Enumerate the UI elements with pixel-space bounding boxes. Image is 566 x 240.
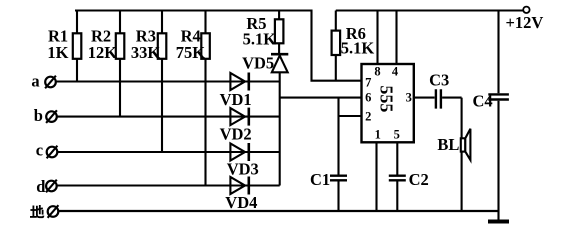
svg-text:a: a xyxy=(31,71,39,90)
svg-text:7: 7 xyxy=(365,76,371,90)
wire left top rail xyxy=(75,9,312,11)
wire pin2/C1 vertical xyxy=(337,98,339,175)
svg-text:C4: C4 xyxy=(473,92,493,111)
diode VD2 xyxy=(230,108,245,125)
wire input c line xyxy=(58,151,280,153)
svg-text:33K: 33K xyxy=(131,43,161,62)
ground symbol xyxy=(488,220,509,224)
svg-text:+12V: +12V xyxy=(506,13,544,32)
svg-text:VD3: VD3 xyxy=(227,159,259,178)
resistor R4 xyxy=(204,11,206,186)
wire pin3 xyxy=(414,97,435,99)
wire ground rail xyxy=(59,210,499,212)
wire input b line xyxy=(58,116,280,118)
zener diode VD5 xyxy=(271,53,288,56)
node terminal c xyxy=(47,147,58,158)
diode VD1 xyxy=(230,73,245,90)
resistor R2 xyxy=(119,11,121,118)
svg-text:75K: 75K xyxy=(176,43,206,62)
svg-text:VD5: VD5 xyxy=(242,53,274,72)
wire pin5 to C2 xyxy=(396,142,398,174)
wire pin1 to ground xyxy=(375,142,377,211)
resistor R3 xyxy=(161,11,163,153)
op-amp U1 555 box xyxy=(362,64,414,142)
svg-text:8: 8 xyxy=(374,65,380,79)
wire pin8 xyxy=(376,11,378,65)
wire pin4 xyxy=(395,11,397,65)
capacitor C4 xyxy=(497,11,499,94)
svg-text:1K: 1K xyxy=(47,43,68,62)
svg-text:4: 4 xyxy=(392,65,399,79)
wire pin2 stub xyxy=(339,115,362,117)
svg-text:C1: C1 xyxy=(310,170,330,189)
resistor R6 xyxy=(335,11,337,81)
wire speaker drop xyxy=(461,98,463,211)
svg-text:1: 1 xyxy=(375,127,381,141)
svg-text:2: 2 xyxy=(365,110,371,124)
svg-text:C3: C3 xyxy=(429,71,449,90)
svg-text:VD1: VD1 xyxy=(220,90,252,109)
node terminal d xyxy=(46,181,57,192)
wire input a line xyxy=(57,80,280,82)
svg-text:BL: BL xyxy=(437,135,459,154)
svg-text:VD4: VD4 xyxy=(225,193,257,212)
diode VD4 xyxy=(230,177,245,194)
label 555 (rotated) xyxy=(377,85,397,112)
svg-text:555: 555 xyxy=(377,85,397,112)
svg-text:5: 5 xyxy=(394,127,400,141)
capacitor C3 xyxy=(436,89,441,108)
svg-text:C2: C2 xyxy=(409,170,429,189)
svg-text:3: 3 xyxy=(406,91,412,105)
svg-text:6: 6 xyxy=(365,91,371,105)
svg-text:5.1K: 5.1K xyxy=(341,39,375,58)
label 地 (ground, drawn strokes) xyxy=(30,205,43,217)
wire right top rail xyxy=(336,9,523,11)
wire input d line xyxy=(57,184,280,186)
diode VD3 xyxy=(230,144,245,161)
pin numbers xyxy=(365,65,412,142)
resistor R5 xyxy=(278,11,280,54)
node +12V terminal xyxy=(523,7,529,13)
capacitor C1 xyxy=(330,176,347,181)
wire pin6 xyxy=(280,97,362,99)
svg-text:b: b xyxy=(34,106,43,125)
wire drop from left rail to pin7 wire xyxy=(312,10,362,81)
node terminal a xyxy=(45,77,56,88)
svg-text:c: c xyxy=(36,141,43,160)
node terminal ground xyxy=(48,206,59,217)
svg-text:VD2: VD2 xyxy=(220,125,252,144)
svg-text:d: d xyxy=(36,177,45,196)
svg-text:5.1K: 5.1K xyxy=(243,29,277,48)
capacitor C2 xyxy=(389,176,406,181)
speaker BL xyxy=(461,138,466,151)
resistor R1 xyxy=(76,11,78,82)
wire diode junction vertical xyxy=(279,73,281,186)
svg-text:12K: 12K xyxy=(88,43,118,62)
node terminal b xyxy=(46,111,57,122)
